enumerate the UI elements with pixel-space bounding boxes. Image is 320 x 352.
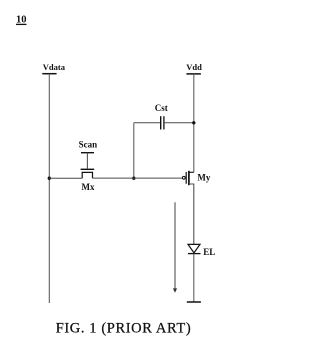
svg-text:My: My [197,173,210,183]
svg-text:Scan: Scan [79,139,98,149]
wire capacitor left lead [134,122,160,124]
svg-text:EL: EL [203,247,215,257]
wire EL to bottom terminal [193,254,195,302]
current arrow [173,202,177,292]
transistor My gate bubble [182,176,185,179]
diode EL cathode bar [188,253,201,255]
Vdd terminal T-bar [186,73,201,75]
capacitor Cst [161,116,164,129]
wire My drain top connection [189,171,194,173]
Vdata terminal T-bar [42,73,56,75]
figure number 10 [16,15,27,26]
transistor My gate bar [185,172,187,184]
svg-text:Mx: Mx [82,182,95,192]
transistor Mx channel bump [82,172,92,178]
svg-text:Cst: Cst [155,103,168,113]
wire Vdata vertical line [48,74,50,303]
wire row wire right segment to My gate [93,177,183,179]
Scan terminal T-bar [81,152,94,154]
transistor My channel bar [188,171,190,185]
transistor Mx gate bar [81,168,95,170]
diode EL triangle [188,244,200,252]
wire Cst left drop to node A [133,123,135,178]
wire Scan gate lead [86,153,88,169]
wire My source bottom connection [189,184,194,244]
svg-text:Vdata: Vdata [43,62,66,72]
wire row wire left segment [49,177,82,179]
junction node A dot [132,177,135,180]
bottom terminal bar [187,301,201,303]
junction Cst to Vdd line [192,121,195,124]
svg-text:FIG. 1 (PRIOR ART): FIG. 1 (PRIOR ART) [56,321,192,337]
svg-text:Vdd: Vdd [186,62,202,72]
wire capacitor right lead [165,122,194,124]
wire Vdd vertical line [193,74,195,172]
junction Vdata to row wire dot [48,177,51,180]
